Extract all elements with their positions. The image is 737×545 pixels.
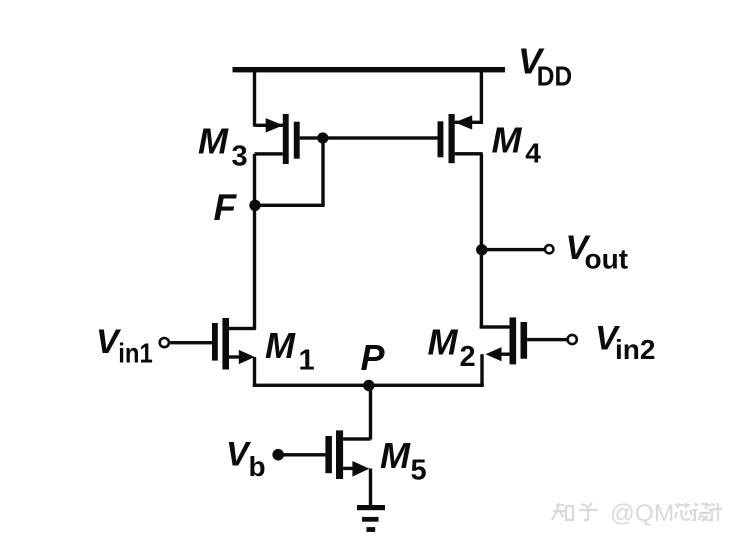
label Vb (226, 436, 266, 483)
wire M5 gate lead (278, 453, 325, 456)
wire M5 source down to ground (369, 469, 372, 507)
watermark 知乎 @QM芯设计 (552, 503, 722, 521)
label M2 (428, 322, 476, 374)
wire M3 drain lead (255, 152, 283, 155)
label VDD (518, 41, 572, 92)
terminal Vin1 open circle (160, 338, 169, 347)
svg-text:in1: in1 (118, 338, 153, 369)
svg-text:P: P (361, 337, 386, 378)
M4 source arrow (PMOS) (455, 115, 472, 129)
svg-text:b: b (249, 451, 266, 482)
wire M2 gate lead (527, 338, 566, 341)
transistor M2 channel bar (510, 317, 517, 364)
wire VDD to M4 source (480, 71, 483, 124)
wire M4 drain down through Vout to M2 drain (480, 154, 483, 328)
wire M3 source lead (255, 124, 284, 127)
node F dot (249, 200, 260, 211)
svg-text:M: M (492, 120, 523, 161)
terminal Vb dot (272, 449, 284, 461)
wire M2 source down to P rail (480, 354, 483, 386)
svg-text:M: M (265, 325, 296, 366)
wire M4 source lead (455, 121, 483, 124)
wire diode-connect horizontal to F (255, 204, 325, 207)
watermark glyph 知 (552, 503, 573, 520)
transistor M5 channel bar (336, 430, 343, 479)
wire M2 source lead (499, 353, 510, 356)
M2 source arrow (NMOS) (486, 347, 502, 361)
watermark glyph 设 (692, 504, 710, 521)
terminal Vin2 open circle (568, 335, 577, 344)
wire tail rail P (253, 384, 484, 387)
transistor M1 gate bar (212, 323, 218, 361)
node P dot (363, 380, 374, 391)
watermark glyph 芯 (675, 503, 692, 520)
transistor M5 gate bar (325, 436, 332, 473)
terminal Vout open circle (545, 245, 553, 253)
svg-text:DD: DD (537, 61, 572, 92)
wire M2 drain lead (480, 325, 510, 328)
wire M5 source lead (343, 467, 354, 470)
svg-text:@QM: @QM (610, 500, 674, 527)
svg-text:5: 5 (411, 455, 427, 487)
label M4 (492, 120, 542, 169)
M5 source arrow (NMOS) (352, 461, 369, 477)
watermark glyph 计 (709, 503, 722, 521)
svg-text:in2: in2 (615, 334, 655, 365)
wire diode-connect vertical (321, 138, 324, 205)
wire VDD to M3 source (253, 71, 256, 127)
label M5 (380, 435, 427, 487)
M3 source arrow (PMOS) (266, 118, 284, 132)
wire gate net M3-M4 (300, 136, 438, 139)
svg-text:M: M (198, 121, 229, 162)
transistor M4 gate bar (438, 121, 444, 157)
label M1 (265, 325, 315, 377)
watermark glyph 乎 (579, 503, 598, 520)
label M3 (198, 121, 248, 173)
wire M3 drain down to M1 drain (253, 154, 256, 330)
svg-text:4: 4 (525, 138, 541, 169)
label Vin2 (595, 320, 655, 366)
svg-text:M: M (380, 435, 411, 476)
transistor M3 channel bar (283, 114, 289, 164)
transistor M1 channel bar (222, 318, 229, 370)
node Vout dot (476, 244, 487, 255)
svg-text:2: 2 (460, 341, 476, 373)
wire P to M5 drain (369, 386, 372, 440)
svg-text:1: 1 (299, 345, 315, 377)
svg-text:F: F (214, 187, 238, 228)
VDD rail (233, 67, 506, 72)
transistor M3 gate bar (294, 122, 300, 159)
wire M1 source lead (229, 355, 243, 358)
M1 source arrow (NMOS) (239, 350, 255, 364)
wire M4 drain lead (455, 152, 483, 155)
wire M1 source down to P rail (253, 357, 256, 387)
transistor M2 gate bar (521, 322, 528, 359)
wire M5 drain lead (343, 437, 371, 440)
wire Vout tap (482, 248, 545, 251)
svg-text:3: 3 (232, 141, 248, 173)
node gate-mirror junction dot (317, 132, 328, 143)
ground (357, 505, 385, 532)
label Vin1 (96, 323, 153, 369)
wire M1 drain lead (229, 327, 256, 330)
transistor M4 channel bar (449, 114, 455, 163)
svg-text:out: out (585, 244, 629, 275)
wire M1 gate lead (170, 341, 212, 344)
label Vout (566, 229, 629, 275)
svg-text:M: M (428, 322, 459, 363)
